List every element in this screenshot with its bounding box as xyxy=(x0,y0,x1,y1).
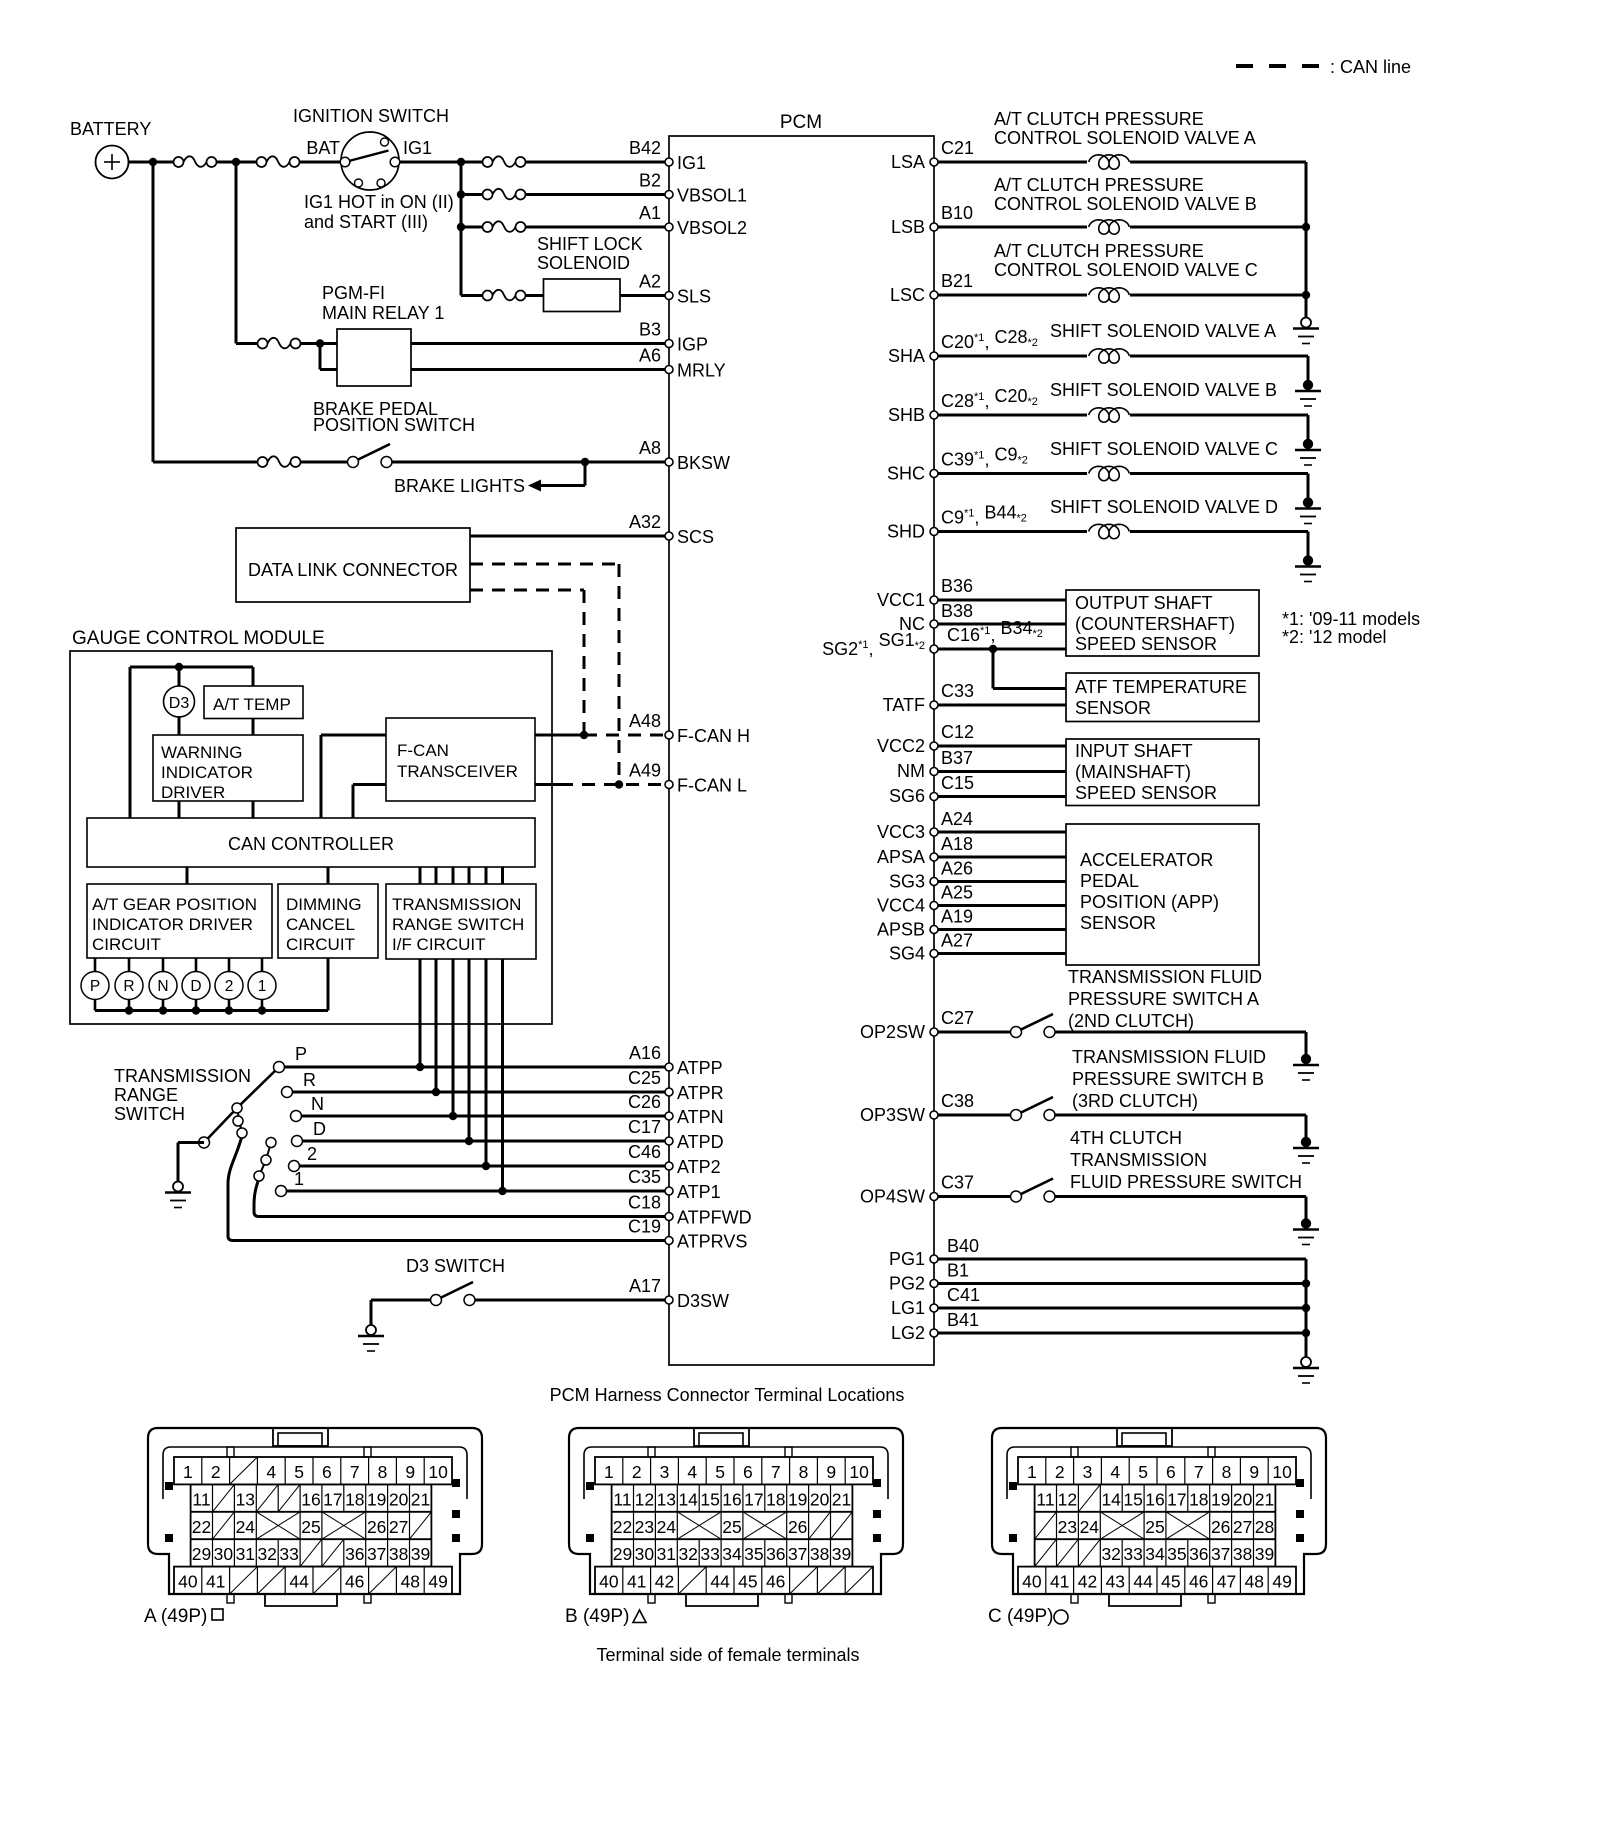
pin SG3 xyxy=(889,859,973,892)
svg-text:INDICATOR DRIVER: INDICATOR DRIVER xyxy=(92,915,253,934)
svg-text:11: 11 xyxy=(192,1489,210,1509)
svg-text:41: 41 xyxy=(1050,1572,1069,1592)
svg-text:POSITION SWITCH: POSITION SWITCH xyxy=(313,415,475,435)
svg-text:A/T GEAR POSITION: A/T GEAR POSITION xyxy=(92,895,257,914)
indicator D3 xyxy=(164,686,195,717)
svg-text:OP3SW: OP3SW xyxy=(860,1105,925,1125)
pin APSB xyxy=(877,907,973,940)
svg-text:SENSOR: SENSOR xyxy=(1080,913,1156,933)
svg-text:2: 2 xyxy=(307,1144,317,1164)
wire GCM left vertical xyxy=(129,667,132,818)
wire MRLY row xyxy=(411,368,669,371)
wire WID to CAN controller 2 xyxy=(252,801,255,818)
pin OP4SW xyxy=(860,1173,974,1207)
svg-text:A1: A1 xyxy=(639,203,661,223)
svg-text:IG1: IG1 xyxy=(403,138,432,158)
ground OP2SW xyxy=(1301,1054,1311,1064)
svg-text:VCC4: VCC4 xyxy=(877,896,925,916)
ground shift solenoid xyxy=(1303,439,1313,449)
svg-text:I/F CIRCUIT: I/F CIRCUIT xyxy=(392,935,486,954)
ground OP3SW xyxy=(1301,1137,1311,1147)
connector A pin grid xyxy=(174,1457,452,1594)
svg-text:33: 33 xyxy=(279,1544,298,1564)
wire TATF row xyxy=(938,704,1066,707)
wires TRS I/F to range switch wires xyxy=(420,959,503,1191)
pin APSA xyxy=(877,834,973,867)
wire A/T TEMP stub top xyxy=(252,667,255,686)
svg-text:36: 36 xyxy=(766,1544,785,1564)
svg-text:6: 6 xyxy=(743,1462,753,1482)
input shaft speed sensor box xyxy=(1066,739,1259,806)
wire VCC2 row xyxy=(938,745,1066,748)
gear indicators P R N D 2 1 xyxy=(81,958,276,1011)
fuse IG1 B42 xyxy=(483,156,526,167)
svg-text:VCC2: VCC2 xyxy=(877,736,925,756)
A/T TEMP box xyxy=(204,686,303,719)
pin LG2 xyxy=(891,1310,979,1343)
pin PG1 xyxy=(889,1236,979,1269)
junction LG2 xyxy=(1302,1329,1310,1337)
switch D3 xyxy=(431,1282,476,1306)
svg-text:23: 23 xyxy=(1058,1517,1077,1537)
svg-text:C27: C27 xyxy=(941,1008,974,1028)
ground solenoid valves ABC xyxy=(1301,318,1311,328)
svg-text:13: 13 xyxy=(236,1489,255,1509)
F-CAN transceiver box xyxy=(386,718,535,801)
svg-text:APSB: APSB xyxy=(877,920,925,940)
wire SG3 row xyxy=(938,880,1066,883)
label PRESSURE SWITCH B xyxy=(1072,1047,1266,1111)
svg-text:LSA: LSA xyxy=(891,152,925,172)
fuse brake xyxy=(258,456,301,467)
brake pedal position switch label xyxy=(313,399,475,435)
fuse VBSOL1 B2 xyxy=(483,189,526,200)
svg-text:IGNITION SWITCH: IGNITION SWITCH xyxy=(293,106,449,126)
connector A row 3 cells xyxy=(192,1512,432,1539)
svg-text:SCS: SCS xyxy=(677,527,714,547)
svg-text:41: 41 xyxy=(206,1572,225,1592)
svg-text:A6: A6 xyxy=(639,346,661,366)
svg-text:42: 42 xyxy=(1078,1572,1097,1592)
svg-text:INPUT SHAFT: INPUT SHAFT xyxy=(1075,741,1193,761)
svg-text:25: 25 xyxy=(301,1517,320,1537)
svg-text:BAT: BAT xyxy=(306,138,340,158)
svg-text:35: 35 xyxy=(744,1544,763,1564)
fuse VBSOL2 A1 xyxy=(483,221,526,232)
wire relay feed vertical xyxy=(235,162,238,344)
svg-text:5: 5 xyxy=(294,1462,304,1482)
svg-text:B38: B38 xyxy=(941,601,973,621)
svg-text:10: 10 xyxy=(849,1462,869,1482)
svg-text:6: 6 xyxy=(322,1462,332,1482)
wire brake feed vertical xyxy=(152,162,155,462)
svg-text:C46: C46 xyxy=(628,1142,661,1162)
svg-text:9: 9 xyxy=(405,1462,415,1482)
wire VBSOL1 row xyxy=(461,193,669,196)
svg-text:POSITION (APP): POSITION (APP) xyxy=(1080,892,1219,912)
gauge control module box xyxy=(70,628,552,1024)
svg-text:B (49P): B (49P) xyxy=(565,1606,629,1627)
svg-text:(2ND CLUTCH): (2ND CLUTCH) xyxy=(1068,1011,1194,1031)
junction VBSOL1 xyxy=(457,190,465,198)
range switch blade ATPRVS xyxy=(228,1136,669,1241)
svg-text:46: 46 xyxy=(766,1572,785,1592)
svg-text:TRANSMISSION: TRANSMISSION xyxy=(392,895,521,914)
wire OP4SW to ground xyxy=(1305,1197,1308,1220)
ground shift solenoid xyxy=(1303,555,1313,565)
wire PG2 row xyxy=(938,1282,1306,1285)
svg-text:P: P xyxy=(90,978,100,995)
svg-text:22: 22 xyxy=(613,1517,632,1537)
svg-text:TATF: TATF xyxy=(883,695,925,715)
svg-text:39: 39 xyxy=(411,1544,430,1564)
svg-text:36: 36 xyxy=(345,1544,364,1564)
svg-text:C26: C26 xyxy=(628,1092,661,1112)
svg-text:SHA: SHA xyxy=(888,346,925,366)
svg-text:IG1 HOT in ON (II): IG1 HOT in ON (II) xyxy=(304,192,454,212)
svg-text:17: 17 xyxy=(1167,1489,1186,1509)
svg-text:31: 31 xyxy=(236,1544,255,1564)
junction ATPD xyxy=(465,1137,473,1145)
pin C46 ATP2 xyxy=(628,1142,721,1177)
svg-text:19: 19 xyxy=(1211,1489,1230,1509)
pin SG6 xyxy=(889,773,974,806)
pin VCC4 xyxy=(877,883,973,916)
svg-text:*1: '09-11 models: *1: '09-11 models xyxy=(1282,609,1420,629)
label CONTROL SOLENOID VALVE B xyxy=(994,175,1257,214)
wire APSA row xyxy=(938,856,1066,859)
svg-text:TRANSCEIVER: TRANSCEIVER xyxy=(397,762,518,781)
pin SHD xyxy=(887,503,1027,542)
svg-text:SOLENOID: SOLENOID xyxy=(537,253,630,273)
wire OP3SW to ground xyxy=(1305,1115,1308,1138)
svg-text:32: 32 xyxy=(678,1544,697,1564)
svg-text:15: 15 xyxy=(700,1489,719,1509)
svg-text:TRANSMISSION FLUID: TRANSMISSION FLUID xyxy=(1072,1047,1266,1067)
svg-text:SHIFT SOLENOID VALVE B: SHIFT SOLENOID VALVE B xyxy=(1050,380,1277,400)
svg-text:A18: A18 xyxy=(941,834,973,854)
svg-text:8: 8 xyxy=(799,1462,809,1482)
connector B inner shroud xyxy=(584,1447,888,1499)
svg-text:(COUNTERSHAFT): (COUNTERSHAFT) xyxy=(1075,614,1235,634)
pin B2 VBSOL1 xyxy=(639,171,747,206)
connector C top latch xyxy=(1117,1428,1172,1446)
connector A side clips xyxy=(165,1479,460,1542)
connector C bottom tabs xyxy=(1071,1594,1215,1606)
svg-text:D3 SWITCH: D3 SWITCH xyxy=(406,1256,505,1276)
svg-text:27: 27 xyxy=(389,1517,408,1537)
svg-text:C (49P): C (49P) xyxy=(988,1606,1053,1627)
pin B3 IGP xyxy=(639,320,708,355)
note IG1 HOT xyxy=(304,192,454,232)
pin PG2 xyxy=(889,1261,969,1294)
pin SG2 SG1 xyxy=(822,618,1043,659)
note models xyxy=(1282,609,1420,647)
pin LSC xyxy=(890,271,973,305)
svg-text:A25: A25 xyxy=(941,883,973,903)
svg-text:C41: C41 xyxy=(947,1285,980,1305)
pin A17 D3SW xyxy=(629,1276,729,1311)
wire ATPN row xyxy=(296,1115,669,1118)
ground shift solenoid xyxy=(1303,380,1313,390)
junction ATPN xyxy=(449,1112,457,1120)
connector C pin grid xyxy=(1018,1457,1296,1594)
pin VCC3 xyxy=(877,809,973,842)
pin A2 SLS xyxy=(639,272,711,307)
CAN controller box xyxy=(87,818,535,867)
connector B name xyxy=(565,1606,646,1627)
pin SHA xyxy=(888,327,1038,366)
svg-text:A49: A49 xyxy=(629,761,661,781)
svg-text:49: 49 xyxy=(1272,1572,1291,1592)
svg-text:7: 7 xyxy=(350,1462,360,1482)
svg-text:ATPR: ATPR xyxy=(677,1083,724,1103)
connector C shell xyxy=(992,1428,1326,1594)
svg-text:23: 23 xyxy=(635,1517,654,1537)
svg-text:34: 34 xyxy=(1145,1544,1165,1564)
wire shift solenoid to ground xyxy=(1130,356,1308,381)
svg-text:46: 46 xyxy=(1189,1572,1208,1592)
svg-text:ACCELERATOR: ACCELERATOR xyxy=(1080,850,1213,870)
connector A bottom tabs xyxy=(227,1594,371,1606)
solenoid coil SHD xyxy=(938,524,1129,538)
wire range switch pole to ground xyxy=(178,1143,204,1182)
svg-text:40: 40 xyxy=(1022,1572,1042,1592)
svg-text:12: 12 xyxy=(1058,1489,1077,1509)
svg-text:8: 8 xyxy=(378,1462,388,1482)
svg-text:9: 9 xyxy=(826,1462,836,1482)
svg-text:A24: A24 xyxy=(941,809,973,829)
connector A name xyxy=(144,1606,223,1627)
svg-text:B41: B41 xyxy=(947,1310,979,1330)
svg-text:ATF TEMPERATURE: ATF TEMPERATURE xyxy=(1075,677,1247,697)
connector B side clips xyxy=(586,1479,881,1542)
svg-text:CANCEL: CANCEL xyxy=(286,915,355,934)
svg-text:30: 30 xyxy=(214,1544,234,1564)
svg-text:DATA LINK CONNECTOR: DATA LINK CONNECTOR xyxy=(248,560,458,580)
pin C18 ATPFWD xyxy=(628,1193,752,1228)
svg-text:PGM-FI: PGM-FI xyxy=(322,283,385,303)
svg-text:B1: B1 xyxy=(947,1261,969,1281)
svg-text:47: 47 xyxy=(1217,1572,1236,1592)
svg-text:9: 9 xyxy=(1249,1462,1259,1482)
svg-text:20: 20 xyxy=(389,1489,409,1509)
svg-text:D3SW: D3SW xyxy=(677,1291,729,1311)
junction ATP2 xyxy=(482,1162,490,1170)
svg-text:A (49P): A (49P) xyxy=(144,1606,207,1627)
svg-text:OP4SW: OP4SW xyxy=(860,1187,925,1207)
svg-text:33: 33 xyxy=(700,1544,719,1564)
svg-text:26: 26 xyxy=(1211,1517,1230,1537)
svg-text:PG1: PG1 xyxy=(889,1249,925,1269)
connector B row 3 cells xyxy=(613,1512,853,1539)
wire NC row xyxy=(938,623,1066,626)
CAN dashed wire DLC lower to F-CAN H xyxy=(470,590,584,735)
wire LSA to ground bus xyxy=(1130,161,1306,164)
connector C inner shroud xyxy=(1007,1447,1311,1499)
svg-text:10: 10 xyxy=(1272,1462,1292,1482)
connector B row 5 cells xyxy=(599,1567,873,1594)
junction IG1 branch xyxy=(457,158,465,166)
solenoid coil SHB xyxy=(938,408,1129,422)
label SHIFT SOLENOID VALVE B xyxy=(1050,380,1277,400)
pin C35 ATP1 xyxy=(628,1167,721,1202)
svg-text:D: D xyxy=(190,978,201,995)
wire F-CAN L to PCM xyxy=(535,783,669,786)
svg-text:18: 18 xyxy=(766,1489,785,1509)
svg-text:4: 4 xyxy=(266,1462,276,1482)
svg-text:RANGE SWITCH: RANGE SWITCH xyxy=(392,915,524,934)
wire D3 switch to ground xyxy=(370,1300,373,1325)
svg-text:7: 7 xyxy=(771,1462,781,1482)
svg-text:SWITCH: SWITCH xyxy=(114,1104,185,1124)
shift lock solenoid xyxy=(537,234,643,312)
svg-text:B21: B21 xyxy=(941,271,973,291)
svg-text:20: 20 xyxy=(810,1489,830,1509)
connector C row 3 cells xyxy=(1035,1512,1275,1539)
svg-text:13: 13 xyxy=(657,1489,676,1509)
wire ATPP row xyxy=(279,1066,669,1069)
wire LSC to ground bus xyxy=(1130,294,1306,297)
svg-text:Terminal side of female termin: Terminal side of female terminals xyxy=(596,1645,859,1665)
svg-text:CIRCUIT: CIRCUIT xyxy=(92,935,161,954)
pin LSA xyxy=(891,138,974,172)
svg-text:26: 26 xyxy=(788,1517,807,1537)
svg-text:2: 2 xyxy=(1055,1462,1065,1482)
junction LSC bus xyxy=(1302,291,1310,299)
svg-text:37: 37 xyxy=(1211,1544,1230,1564)
wire D3 stub top xyxy=(178,667,181,687)
label CONTROL SOLENOID VALVE C xyxy=(994,241,1258,280)
fuse SLS A2 xyxy=(483,290,526,301)
pin OP3SW xyxy=(860,1091,974,1125)
svg-text:6: 6 xyxy=(1166,1462,1176,1482)
pin SHC xyxy=(887,445,1028,484)
svg-text:42: 42 xyxy=(655,1572,674,1592)
connector B top latch xyxy=(694,1428,749,1446)
svg-text:D: D xyxy=(313,1119,326,1139)
switch OP3SW xyxy=(938,1097,1306,1121)
svg-text:SPEED SENSOR: SPEED SENSOR xyxy=(1075,783,1217,803)
svg-text:16: 16 xyxy=(722,1489,741,1509)
svg-text:40: 40 xyxy=(178,1572,198,1592)
svg-text:OUTPUT SHAFT: OUTPUT SHAFT xyxy=(1075,593,1213,613)
label PRESSURE SWITCH A xyxy=(1068,967,1262,1031)
solenoid coil SHC xyxy=(938,466,1129,480)
svg-text:12: 12 xyxy=(635,1489,654,1509)
connector B top tabs xyxy=(648,1447,792,1457)
wire CAN to dimming box xyxy=(327,867,330,884)
wire ATP2 row xyxy=(294,1165,669,1168)
svg-text:A26: A26 xyxy=(941,859,973,879)
svg-text:R: R xyxy=(123,978,134,995)
svg-text:24: 24 xyxy=(1080,1517,1100,1537)
svg-text:B42: B42 xyxy=(629,138,661,158)
svg-text:19: 19 xyxy=(367,1489,386,1509)
wire shift solenoid to ground xyxy=(1130,474,1308,499)
svg-text:4: 4 xyxy=(687,1462,697,1482)
wire to brake lights xyxy=(394,462,585,496)
pin NC xyxy=(899,601,973,634)
wire WID to CAN controller 1 xyxy=(178,801,181,818)
CAN line legend xyxy=(1236,57,1411,77)
connector C side clips xyxy=(1009,1479,1304,1542)
svg-text:ATPD: ATPD xyxy=(677,1132,724,1152)
svg-text:APSA: APSA xyxy=(877,847,925,867)
svg-text:MAIN RELAY 1: MAIN RELAY 1 xyxy=(322,303,444,323)
svg-text:R: R xyxy=(303,1070,316,1090)
svg-text:SHIFT LOCK: SHIFT LOCK xyxy=(537,234,643,254)
connector A top tabs xyxy=(227,1447,371,1457)
svg-text:25: 25 xyxy=(722,1517,741,1537)
pin A49 F-CAN L xyxy=(629,761,747,796)
wire SG4 row xyxy=(938,952,1066,955)
pin SHB xyxy=(888,386,1038,425)
wires CAN to TRS I/F box xyxy=(420,867,503,884)
pin C17 ATPD xyxy=(628,1117,724,1152)
svg-text:49: 49 xyxy=(428,1572,447,1592)
svg-text:B10: B10 xyxy=(941,203,973,223)
svg-text:: CAN line: : CAN line xyxy=(1330,57,1411,77)
svg-text:and START (III): and START (III) xyxy=(304,212,428,232)
junction brake lights xyxy=(581,458,589,466)
connector B bottom tabs xyxy=(648,1594,792,1606)
transmission range switch label xyxy=(114,1066,251,1124)
svg-text:ATP2: ATP2 xyxy=(677,1157,721,1177)
svg-text:ATPN: ATPN xyxy=(677,1107,724,1127)
data link connector box xyxy=(236,528,470,602)
connector B shell xyxy=(569,1428,903,1594)
svg-text:16: 16 xyxy=(1145,1489,1164,1509)
svg-text:SHC: SHC xyxy=(887,464,925,484)
svg-text:21: 21 xyxy=(1255,1489,1274,1509)
label SHIFT SOLENOID VALVE A xyxy=(1050,321,1276,341)
switch OP2SW xyxy=(938,1014,1306,1038)
svg-text:5: 5 xyxy=(1138,1462,1148,1482)
svg-text:A8: A8 xyxy=(639,438,661,458)
svg-text:10: 10 xyxy=(428,1462,448,1482)
svg-text:PCM Harness Connector Terminal: PCM Harness Connector Terminal Locations xyxy=(550,1385,905,1405)
connector B row 1 cells xyxy=(604,1457,869,1484)
svg-text:32: 32 xyxy=(1101,1544,1120,1564)
range switch contact circles xyxy=(199,1062,303,1197)
svg-text:MRLY: MRLY xyxy=(677,361,726,381)
svg-text:1: 1 xyxy=(294,1169,304,1189)
wire ATPR row xyxy=(287,1091,669,1094)
svg-text:33: 33 xyxy=(1123,1544,1142,1564)
fuse battery 1 xyxy=(174,156,217,167)
ground range switch xyxy=(173,1182,183,1192)
svg-text:44: 44 xyxy=(710,1572,730,1592)
pin A48 F-CAN H xyxy=(629,711,750,746)
svg-text:DIMMING: DIMMING xyxy=(286,895,362,914)
svg-text:CONTROL SOLENOID VALVE A: CONTROL SOLENOID VALVE A xyxy=(994,128,1256,148)
junction ATPP xyxy=(416,1063,424,1071)
svg-text:(3RD CLUTCH): (3RD CLUTCH) xyxy=(1072,1091,1198,1111)
svg-text:GAUGE CONTROL MODULE: GAUGE CONTROL MODULE xyxy=(72,628,325,649)
wire NM row xyxy=(938,770,1066,773)
junction relay feed xyxy=(232,158,240,166)
svg-text:30: 30 xyxy=(635,1544,655,1564)
svg-text:46: 46 xyxy=(345,1572,364,1592)
connector A top latch xyxy=(273,1428,328,1446)
svg-text:SHIFT SOLENOID VALVE D: SHIFT SOLENOID VALVE D xyxy=(1050,497,1278,517)
connector A row 2 cells xyxy=(192,1484,430,1511)
svg-text:C15: C15 xyxy=(941,773,974,793)
svg-text:SG6: SG6 xyxy=(889,786,925,806)
wire SG2 to ATF sensor xyxy=(993,649,1066,689)
svg-text:OP2SW: OP2SW xyxy=(860,1022,925,1042)
